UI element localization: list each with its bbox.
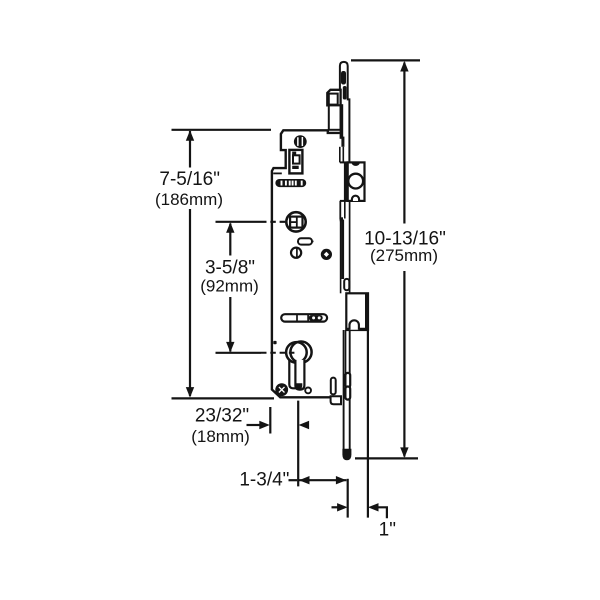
adjuster bottom dark bar <box>292 166 299 169</box>
euro cylinder back circle <box>286 342 307 363</box>
arrowhead 23/32 left (tip at x=298.6) <box>299 421 310 429</box>
svg-text:1": 1" <box>379 520 396 541</box>
roller housing top edge left extension <box>340 161 348 163</box>
svg-text:(18mm): (18mm) <box>191 427 250 446</box>
small stadium tab <box>298 238 312 244</box>
set screw (dark octagon with diamond hole) <box>321 249 332 260</box>
roller circle <box>348 174 363 189</box>
extension line 3-5/8 top solid (y=221.8) <box>216 221 262 223</box>
latch block inner rect <box>329 94 338 105</box>
dimension line 10-13/16 shaft upper <box>403 63 405 224</box>
leader line 1-3/4 <box>289 479 298 481</box>
arrowhead 7-5/16 up <box>186 130 194 141</box>
small dark dot on body left <box>273 341 276 344</box>
slot divider 2 <box>307 314 309 321</box>
leader line 23/32 (y=425) <box>247 424 260 426</box>
phillips screw bottom-left <box>275 383 288 396</box>
arrowhead 7-5/16 down <box>186 387 194 398</box>
dimension line 10-13/16 shaft lower <box>403 271 405 457</box>
long slot stadium <box>281 314 327 321</box>
dimension line 1-3/4 shaft <box>299 479 346 481</box>
svg-text:1-3/4": 1-3/4" <box>239 470 289 491</box>
latch block <box>327 90 340 106</box>
spindle hub outer circle <box>286 212 305 231</box>
adjuster inner rect <box>293 155 300 163</box>
hub square divider <box>296 217 298 228</box>
slot divider 1 <box>296 314 298 321</box>
arrowhead 3-5/8 down <box>226 342 234 353</box>
euro cylinder front stem <box>295 360 304 390</box>
extension line x=270.3 <box>269 407 271 434</box>
extension line 10-13/16 top (y=60.4) <box>351 59 420 61</box>
centerline dashes to cylinder <box>261 352 296 354</box>
small circle o <box>305 388 311 394</box>
mushroom housing arch <box>350 320 359 329</box>
hub square left tick <box>290 221 297 223</box>
arrowhead 23/32 right (tip at x=270) <box>259 421 270 429</box>
extension line x=347.7 <box>347 479 349 518</box>
euro cylinder back stem <box>289 360 296 388</box>
cam circle with line <box>291 248 301 258</box>
euro cylinder front circle <box>290 342 311 363</box>
faceplate lines between housings <box>339 201 341 220</box>
body bottom tab <box>331 396 341 404</box>
arrowhead 3-5/8 up <box>226 222 234 233</box>
stadium tab right tick <box>312 240 314 242</box>
centerline dashes to hub <box>261 221 287 223</box>
slot dark slider <box>309 315 323 321</box>
svg-text:(92mm): (92mm) <box>200 277 259 296</box>
top screw (dark with slits) <box>294 135 307 148</box>
extension line 10-13/16 bottom (y=458.4) <box>355 457 418 459</box>
roller housing box <box>348 162 365 201</box>
latch lower piece <box>329 105 341 129</box>
faceplate lines below mushroom housing <box>343 330 345 450</box>
body side slot <box>331 378 336 395</box>
faceplate top cap <box>340 62 350 162</box>
arrowhead 1 inch pointing right (tip x=347.6) <box>337 503 348 511</box>
small tab above mushroom housing <box>344 279 349 290</box>
lock body outline <box>272 130 340 397</box>
arrowhead 10-13/16 down <box>400 447 408 458</box>
svg-text:3-5/8": 3-5/8" <box>205 258 255 279</box>
mushroom housing thick bottom edge <box>346 328 368 331</box>
roller housing bottom edge left extension <box>340 200 348 202</box>
roller housing top notch <box>352 163 360 166</box>
svg-text:23/32": 23/32" <box>195 406 249 427</box>
svg-text:(275mm): (275mm) <box>370 246 438 265</box>
arrowhead 1 inch pointing left (tip x=368) <box>368 503 379 511</box>
faceplate slot B <box>345 387 350 400</box>
adjuster block outer rect <box>289 150 302 174</box>
svg-text:7-5/16": 7-5/16" <box>159 169 220 190</box>
dimension 1 inch left tail <box>332 506 339 508</box>
dimension texts <box>155 169 446 541</box>
dimension line 7-5/16 shaft upper <box>189 131 191 168</box>
dimension line 3-5/8 shaft lower <box>229 297 231 352</box>
faceplate cap slot 2 <box>343 86 347 100</box>
serrated slot (dark stadium with slits) <box>275 179 306 187</box>
faceplate bottom cap <box>342 449 351 460</box>
dimension line 7-5/16 shaft lower <box>189 209 191 396</box>
euro cylinder dark tip <box>296 383 302 389</box>
roller housing bottom notch <box>352 196 359 201</box>
svg-text:(186mm): (186mm) <box>155 190 223 209</box>
faceplate slot A <box>345 373 350 388</box>
extension line bottom-left (7-5/16 bottom, y=398.4) <box>172 397 275 399</box>
dimension line 3-5/8 shaft upper <box>229 224 231 256</box>
body ledge inner line <box>273 172 282 174</box>
mushroom housing thick right edge <box>365 293 368 330</box>
roller housing dark left bar <box>344 163 348 200</box>
lock body fill <box>272 130 341 397</box>
arrowhead 1-3/4 right <box>336 476 347 484</box>
faceplate cap slot 1 <box>341 71 346 85</box>
faceplate thin lines above roller housing <box>339 147 341 163</box>
spindle hub square hole <box>290 217 302 228</box>
extension line top-left (7-5/16 top, y=129.8) <box>172 129 272 131</box>
faceplate dark bar upper <box>340 104 344 139</box>
arrowhead 1-3/4 left <box>299 476 310 484</box>
extension line x=298.2 (body bottom to below) <box>297 401 299 487</box>
faceplate dark bar mid <box>341 220 344 280</box>
arrowhead 10-13/16 up <box>400 61 408 72</box>
extension line x=367.9 (from housing corner) <box>367 330 369 518</box>
mushroom housing box <box>346 293 368 330</box>
faceplate dark block 2 <box>341 137 344 147</box>
extension line 3-5/8 bottom solid (y=352.8) <box>216 352 262 354</box>
leader elbow 1 inch <box>378 507 387 518</box>
faceplate step knot <box>340 217 343 221</box>
adjuster small dark square <box>292 152 296 155</box>
